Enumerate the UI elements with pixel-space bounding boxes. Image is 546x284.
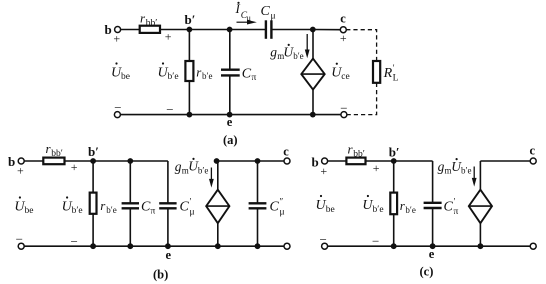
svg-text:e: e bbox=[227, 115, 233, 129]
resistor r_b'e (c) bbox=[390, 161, 397, 246]
svg-text:′: ′ bbox=[393, 63, 395, 73]
junction dot top of C_pi (a) bbox=[227, 27, 233, 33]
svg-text:b′e: b′e bbox=[293, 51, 303, 61]
svg-text:R: R bbox=[383, 66, 393, 81]
svg-text:b′e: b′e bbox=[168, 72, 179, 82]
bottom rail wire (b) bbox=[24, 245, 284, 247]
node b' junction dot (b) bbox=[90, 158, 96, 164]
svg-text:c: c bbox=[340, 12, 346, 26]
svg-text:μ: μ bbox=[271, 12, 276, 22]
svg-text:b′e: b′e bbox=[405, 205, 415, 215]
svg-text:π: π bbox=[252, 73, 257, 83]
junction dot bottom r_b'e (a) bbox=[187, 112, 193, 118]
svg-text:bb′: bb′ bbox=[51, 149, 63, 159]
svg-text:C: C bbox=[180, 200, 190, 215]
wire b to r_bb' (b) bbox=[24, 160, 43, 162]
wire r_bb' to node b' (b) bbox=[65, 160, 94, 162]
svg-text:b′e: b′e bbox=[198, 165, 208, 175]
svg-text:(b): (b) bbox=[153, 267, 168, 281]
label C_pi (a) bbox=[242, 67, 257, 83]
controlled source g_m U_b'e (a) bbox=[301, 30, 324, 115]
svg-text:′: ′ bbox=[190, 197, 192, 207]
label C''_mu (b) bbox=[270, 197, 285, 218]
svg-text:(a): (a) bbox=[223, 133, 238, 147]
svg-text:e: e bbox=[429, 247, 435, 261]
wire top rail source to terminal c (c) bbox=[480, 160, 530, 162]
label r_bb' (a) bbox=[140, 11, 157, 29]
svg-text:b′: b′ bbox=[88, 144, 99, 159]
wire r_bb' to node b' (a) bbox=[160, 29, 189, 31]
svg-text:+: + bbox=[373, 161, 380, 175]
label g_m U_b'e (a) bbox=[270, 44, 303, 61]
resistor r_bb' (c) bbox=[346, 158, 365, 165]
svg-text:−: − bbox=[340, 101, 347, 116]
svg-text:C: C bbox=[141, 200, 151, 215]
capacitor C_pi (a) bbox=[221, 30, 240, 115]
terminal b (a) bbox=[115, 27, 121, 33]
wire b to r_bb' (c) bbox=[328, 160, 347, 162]
node b' junction dot (c) bbox=[391, 158, 397, 164]
svg-text:b: b bbox=[8, 154, 15, 169]
terminal bottom left (b) bbox=[18, 243, 24, 249]
svg-text:b′: b′ bbox=[389, 145, 400, 160]
terminal b (b) bbox=[18, 158, 24, 164]
label g_m U_b'e (c) bbox=[438, 158, 472, 176]
svg-text:b′e: b′e bbox=[202, 71, 212, 81]
wire top rail source to C''_mu junction (b) bbox=[217, 160, 258, 162]
junction dot bottom source (c) bbox=[478, 243, 484, 249]
terminal c (a) bbox=[340, 27, 346, 33]
label U_b'e (c) bbox=[362, 195, 383, 215]
dashed wire c to R_L top (a) bbox=[346, 30, 376, 61]
junction dot bottom C'_pi / node e (c) bbox=[430, 243, 436, 249]
junction dot bottom source (b) bbox=[215, 243, 221, 249]
svg-text:C: C bbox=[444, 200, 454, 215]
label C'_pi (c) bbox=[444, 197, 459, 218]
arrow of controlled current (a) bbox=[305, 34, 310, 58]
capacitor C''_mu (b) bbox=[249, 161, 267, 246]
svg-text:be: be bbox=[326, 205, 335, 215]
junction dot top of C_pi (b) bbox=[127, 158, 133, 164]
svg-text:b′e: b′e bbox=[461, 166, 471, 176]
capacitor C'_pi (c) bbox=[424, 161, 442, 246]
terminal c (b) bbox=[284, 158, 290, 164]
resistor r_b'e (b) bbox=[90, 161, 97, 246]
bottom rail wire (a) bbox=[120, 114, 341, 116]
dashed wire R_L bottom to output terminal (a) bbox=[347, 83, 377, 115]
svg-text:+: + bbox=[113, 32, 120, 46]
label r_bb' (b) bbox=[46, 141, 63, 159]
svg-text:c: c bbox=[283, 145, 289, 159]
arrow of controlled current (b) bbox=[209, 168, 214, 188]
junction dot top of C''_mu (b) bbox=[255, 158, 261, 164]
label R_L (a) bbox=[383, 63, 399, 84]
svg-text:b′e: b′e bbox=[373, 205, 384, 215]
junction dot top of source (b) bbox=[214, 158, 220, 164]
svg-text:be: be bbox=[25, 206, 34, 216]
label r_b'e (a) bbox=[196, 64, 212, 81]
svg-text:bb′: bb′ bbox=[146, 19, 158, 29]
svg-text:L: L bbox=[393, 73, 399, 83]
capacitor C_mu (a) bbox=[266, 20, 272, 39]
wire r_bb' to node b' (c) bbox=[366, 160, 394, 162]
current arrow I_Cmu (a) bbox=[237, 20, 257, 25]
label r_b'e (b) bbox=[100, 198, 116, 215]
svg-text:b: b bbox=[105, 22, 112, 37]
junction dot bottom C_pi / node e (a) bbox=[227, 112, 233, 118]
bottom rail wire (c) bbox=[328, 245, 531, 247]
svg-text:b′e: b′e bbox=[106, 205, 116, 215]
label U_ce (a) bbox=[331, 63, 349, 82]
terminal b (c) bbox=[322, 158, 328, 164]
svg-text:C: C bbox=[270, 200, 280, 215]
wire C_mu to collector junction (a) bbox=[271, 29, 312, 31]
terminal bottom left (a) bbox=[114, 112, 120, 118]
label U_be (c) bbox=[316, 195, 335, 215]
resistor r_bb' (b) bbox=[43, 158, 64, 165]
label g_m U_b'e (b) bbox=[175, 158, 209, 176]
svg-text:+: + bbox=[17, 164, 24, 178]
arrow of controlled current (c) bbox=[472, 167, 477, 187]
svg-text:−: − bbox=[320, 232, 327, 247]
svg-text:μ: μ bbox=[280, 208, 285, 218]
svg-text:C: C bbox=[261, 4, 271, 19]
junction dot bottom C'_mu / node e (b) bbox=[165, 243, 171, 249]
svg-text:+: + bbox=[165, 30, 172, 44]
svg-text:ce: ce bbox=[341, 72, 349, 82]
terminal bottom right (b) bbox=[284, 243, 290, 249]
terminal output minus (a) bbox=[341, 112, 347, 118]
label U_b'e (b) bbox=[62, 196, 83, 216]
svg-text:+: + bbox=[320, 164, 327, 178]
junction dot bottom r_b'e (b) bbox=[90, 243, 96, 249]
junction dot bottom C''_mu (b) bbox=[255, 243, 261, 249]
svg-text:+: + bbox=[71, 160, 78, 174]
wire b to r_bb' (a) bbox=[121, 29, 140, 31]
junction dot collector branch top (a) bbox=[310, 27, 316, 33]
label I_Cmu (a) bbox=[235, 1, 251, 23]
wire top rail b' to C'_pi corner (c) bbox=[394, 160, 433, 162]
svg-text:″: ″ bbox=[280, 197, 284, 207]
svg-text:bb′: bb′ bbox=[353, 150, 365, 160]
svg-text:b′e: b′e bbox=[72, 206, 83, 216]
svg-text:be: be bbox=[121, 72, 130, 82]
wire C''_mu junction to terminal c (b) bbox=[258, 160, 285, 162]
label C_mu (a) bbox=[261, 4, 276, 22]
svg-text:C: C bbox=[242, 67, 252, 82]
resistor r_b'e (a) bbox=[185, 30, 193, 115]
capacitor C'_mu (b) bbox=[159, 161, 176, 246]
label r_bb' (c) bbox=[348, 142, 365, 160]
wire junction to C_mu (a) bbox=[230, 29, 266, 31]
svg-text:(c): (c) bbox=[420, 264, 434, 278]
resistor R_L (a) bbox=[373, 61, 380, 83]
svg-text:+: + bbox=[340, 31, 347, 45]
svg-text:b: b bbox=[312, 155, 319, 170]
svg-text:c: c bbox=[530, 144, 536, 158]
junction dot bottom source (a) bbox=[310, 112, 316, 118]
terminal c (c) bbox=[530, 158, 536, 164]
svg-text:π: π bbox=[454, 207, 459, 217]
label U_b'e (a) bbox=[158, 62, 179, 82]
label C_pi (b) bbox=[141, 200, 156, 217]
controlled source g_m U_b'e (c) bbox=[469, 161, 492, 246]
svg-text:−: − bbox=[16, 232, 23, 247]
junction dot bottom C_pi (b) bbox=[127, 243, 133, 249]
wire top rail b' to C_pi junction (a) bbox=[189, 29, 229, 31]
svg-text:μ: μ bbox=[247, 13, 251, 22]
svg-text:−: − bbox=[114, 100, 121, 115]
terminal bottom left (c) bbox=[322, 243, 328, 249]
capacitor C_pi (b) bbox=[122, 161, 139, 246]
wire junction to terminal c (a) bbox=[313, 29, 341, 31]
label U_be (a) bbox=[111, 62, 130, 82]
label U_be (b) bbox=[14, 196, 33, 216]
controlled source g_m U_b'e (b) bbox=[206, 161, 229, 246]
junction dot bottom r_b'e (c) bbox=[391, 243, 397, 249]
node b' junction dot (a) bbox=[187, 27, 193, 33]
terminal bottom right (c) bbox=[530, 243, 536, 249]
svg-text:′: ′ bbox=[454, 197, 456, 207]
svg-text:μ: μ bbox=[190, 208, 195, 218]
wire top rail b' to C_pi junction (b) bbox=[93, 160, 130, 162]
svg-text:π: π bbox=[151, 207, 156, 217]
label C'_mu (b) bbox=[180, 197, 195, 218]
resistor r_bb' (a) bbox=[140, 26, 160, 33]
svg-text:b′: b′ bbox=[185, 12, 196, 27]
label r_b'e (c) bbox=[400, 198, 416, 215]
svg-text:e: e bbox=[166, 248, 172, 262]
wire C_pi junction to C'_mu corner (b) bbox=[130, 160, 168, 162]
